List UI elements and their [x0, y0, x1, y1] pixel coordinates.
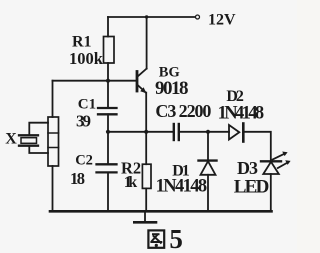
- svg-text:12V: 12V: [208, 12, 236, 29]
- svg-text:18: 18: [70, 169, 85, 188]
- svg-text:D3: D3: [237, 158, 258, 178]
- svg-text:100k: 100k: [69, 49, 104, 68]
- svg-text:39: 39: [76, 112, 91, 131]
- svg-text:C1: C1: [78, 97, 96, 113]
- svg-text:1N4148: 1N4148: [218, 104, 265, 124]
- svg-text:C2: C2: [75, 152, 93, 168]
- svg-text:X: X: [5, 131, 17, 148]
- svg-text:LED: LED: [234, 177, 269, 198]
- svg-text:D2: D2: [226, 88, 244, 105]
- svg-text:1k: 1k: [124, 174, 138, 191]
- svg-text:C3 2200: C3 2200: [155, 101, 211, 121]
- svg-text:5: 5: [169, 224, 183, 253]
- svg-text:9018: 9018: [155, 78, 189, 99]
- svg-text:1N4148: 1N4148: [156, 176, 208, 196]
